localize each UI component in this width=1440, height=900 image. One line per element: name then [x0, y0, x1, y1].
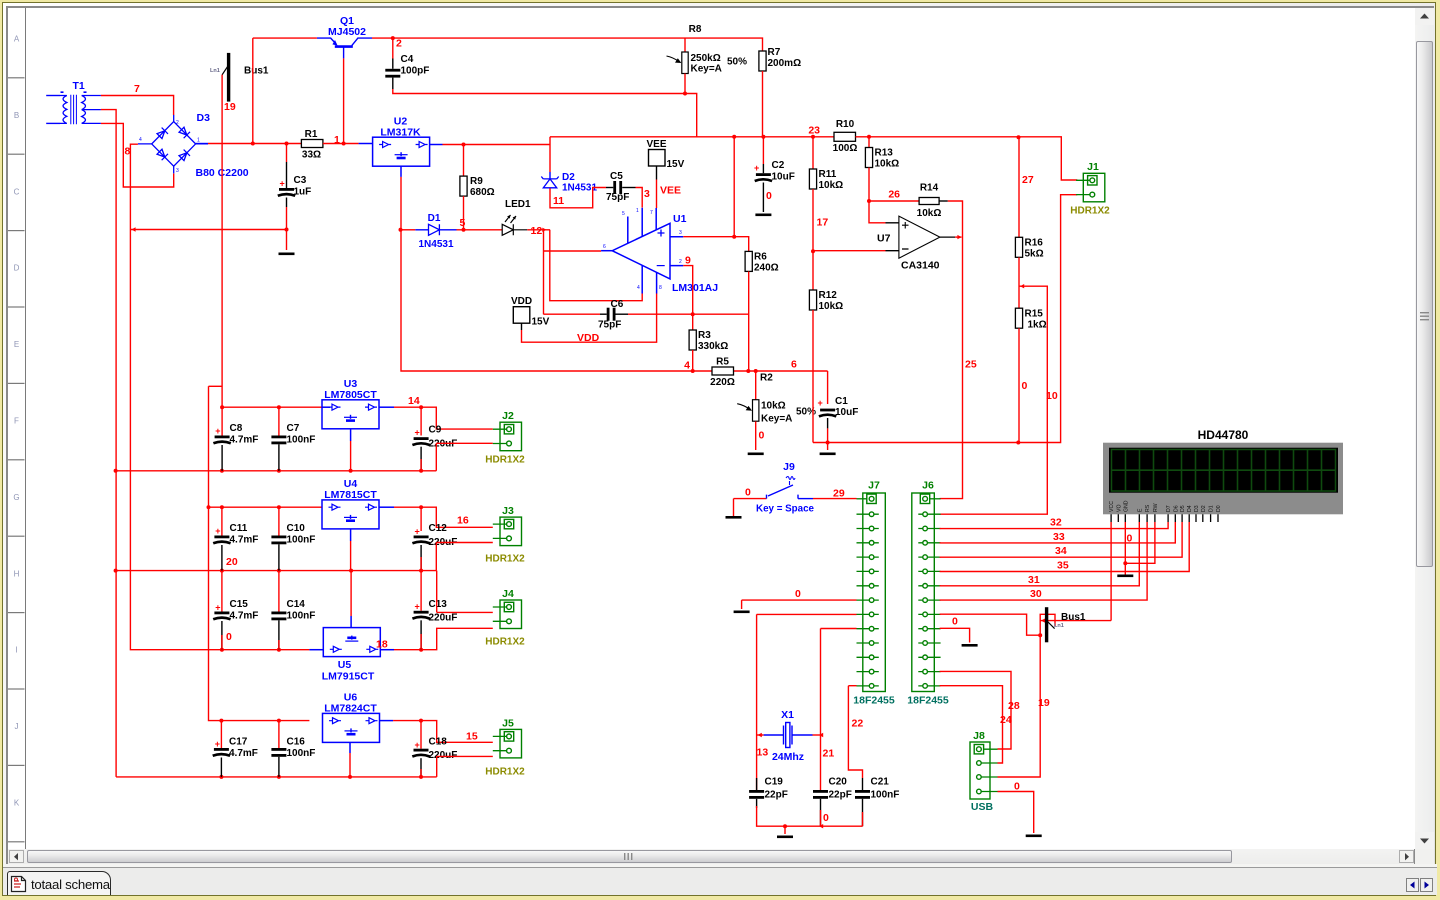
wire C14 bottom: [278, 620, 280, 649]
wire LCD VCC down: [1110, 522, 1112, 621]
stub: [322, 406, 330, 408]
svg-text:D4: D4: [1187, 505, 1193, 512]
svg-text:100pF: 100pF: [401, 66, 430, 77]
wire gnd stub: [733, 499, 735, 516]
connector J7 18F2455: [857, 493, 886, 692]
svg-text:19: 19: [224, 101, 236, 113]
svg-text:2: 2: [679, 259, 682, 265]
svg-text:+: +: [215, 739, 220, 749]
wire C12 bottom: [420, 545, 422, 571]
capacitor C12: [414, 536, 429, 539]
capacitor C3: [279, 188, 294, 191]
svg-text:100nF: 100nF: [287, 611, 316, 622]
svg-text:R16: R16: [1025, 238, 1044, 249]
junction arrow X1 left: [758, 733, 762, 737]
op-amp U1 LM301AJ: [601, 208, 683, 294]
junction: [462, 143, 466, 147]
junction: [419, 719, 423, 723]
U2 output stub: [430, 144, 443, 146]
svg-text:VDD: VDD: [511, 296, 532, 307]
wire net 28 J6 pin13 to J8 pin1: [940, 671, 1011, 749]
wire net 7 T1 top to bridge: [101, 96, 174, 116]
wire net 30 J6 to LCD: [940, 522, 1148, 600]
capacitor C16: [271, 748, 286, 751]
svg-text:27: 27: [1022, 174, 1034, 186]
svg-text:Bus1: Bus1: [1061, 612, 1086, 623]
wire net 17 to U7 -: [813, 250, 886, 252]
wire net 19 bus tap down to C8: [221, 75, 223, 436]
svg-text:LM317K: LM317K: [380, 127, 421, 139]
U2 adj stub: [400, 166, 402, 177]
wire net 18 to J4 pin2: [394, 628, 493, 649]
capacitor C7: [271, 436, 286, 439]
svg-text:R10: R10: [836, 119, 855, 130]
svg-text:D3: D3: [197, 112, 211, 124]
regulator U6 LM7824CT: [323, 713, 380, 742]
wire J8 pin4 to ground: [998, 792, 1034, 834]
wire J4 pin1: [437, 611, 493, 613]
potentiometer R8: [682, 52, 688, 74]
connector J6 18F2455: [912, 493, 941, 692]
wire node to R1: [208, 143, 301, 145]
wire R14 feedback and net 25 to J6 pin1: [940, 201, 963, 499]
connector J3 HDR1X2: [493, 517, 522, 546]
wire to LCD VCC: [1040, 620, 1111, 622]
sheet zone ruler column A-K: [25, 8, 27, 849]
wire net 8 bridge minus to U5 input bus: [130, 144, 309, 650]
wire net 13 J7 pin9: [757, 613, 857, 615]
svg-text:8: 8: [659, 285, 662, 291]
wire bus to C2: [762, 137, 764, 164]
wire J6 pin9 to bus tap: [940, 614, 1041, 635]
junction: [285, 142, 289, 146]
U4 gnd stub: [350, 529, 352, 541]
tab nav buttons: [1406, 878, 1419, 892]
wire net 8 branch to C3 ground node: [130, 229, 286, 231]
svg-text:C17: C17: [229, 737, 248, 748]
junction: [732, 135, 736, 139]
wire C2 bottom: [762, 183, 764, 213]
wire C6 left: [544, 313, 601, 315]
wire top bus to R7: [393, 38, 763, 51]
junction: [285, 228, 289, 232]
svg-text:17: 17: [817, 217, 829, 229]
svg-text:C3: C3: [294, 175, 307, 186]
svg-text:Ln1: Ln1: [210, 68, 220, 74]
wire: [436, 571, 438, 613]
U5 in stub: [309, 649, 323, 651]
svg-text:10kΩ: 10kΩ: [819, 180, 844, 191]
wire C9 bottom: [420, 447, 422, 471]
svg-text:9: 9: [685, 255, 691, 267]
wire net 0 to J7 pin8: [742, 599, 857, 601]
wire R3 bottom to bus 4: [692, 350, 694, 371]
U4 out stub: [379, 506, 394, 508]
junction: [277, 719, 281, 723]
svg-text:1: 1: [197, 138, 200, 144]
junction: [826, 441, 830, 445]
svg-text:0: 0: [1127, 533, 1133, 545]
junction: [761, 135, 765, 139]
wire net 0 to switch: [734, 498, 767, 500]
wire to U1 pin1: [550, 230, 642, 301]
wire C4 bottom bus to main rail: [393, 89, 697, 137]
op-amp U7 CA3140: [886, 216, 956, 258]
wire LCD RW to GND: [1125, 522, 1155, 563]
lead: [600, 313, 607, 315]
wire C11 top: [221, 507, 223, 535]
wire vertical emitter to node 1 bus: [252, 38, 254, 143]
capacitor C2: [756, 173, 771, 176]
svg-text:0: 0: [766, 190, 772, 202]
wire net 19 to J8 pin3: [998, 635, 1041, 777]
transistor Q1 MJ4502: [317, 38, 372, 58]
wire net 29 to J7 pin1: [813, 498, 857, 500]
svg-text:C13: C13: [429, 599, 448, 610]
wire Q1 collector: [372, 37, 393, 39]
junction: [399, 228, 403, 232]
svg-text:32: 32: [1050, 517, 1062, 529]
svg-text:J5: J5: [502, 718, 514, 730]
junction: [220, 405, 224, 409]
svg-text:LED1: LED1: [505, 199, 531, 210]
wire U6 gnd: [349, 753, 351, 777]
svg-text:10kΩ: 10kΩ: [819, 301, 844, 312]
capacitor C19: [749, 790, 764, 793]
wire U3 gnd: [350, 441, 352, 471]
svg-text:+: +: [215, 426, 220, 436]
wire C12 top: [420, 507, 422, 531]
svg-text:0: 0: [226, 631, 232, 643]
lead: [762, 164, 764, 173]
svg-text:28: 28: [1008, 700, 1020, 712]
stub: [741, 600, 743, 609]
svg-text:18F2455: 18F2455: [853, 695, 895, 707]
svg-text:18F2455: 18F2455: [907, 695, 949, 707]
lead: [521, 323, 523, 330]
wire C7 bottom: [278, 444, 280, 471]
junction: [114, 469, 118, 473]
svg-text:4.7mF: 4.7mF: [230, 611, 259, 622]
svg-text:R8: R8: [689, 24, 702, 35]
svg-text:15V: 15V: [667, 159, 685, 170]
wire net 21 J7 pin10: [821, 628, 857, 630]
resistor R14: [919, 198, 939, 205]
svg-text:HDR1X2: HDR1X2: [485, 767, 525, 778]
svg-text:0: 0: [1014, 781, 1020, 793]
svg-text:30: 30: [1030, 588, 1042, 600]
svg-text:D2: D2: [1201, 505, 1207, 512]
wire node 26 to R14: [869, 200, 919, 202]
wire C16 bottom: [278, 757, 280, 777]
svg-text:C6: C6: [611, 299, 624, 310]
svg-text:VEE: VEE: [646, 139, 666, 150]
svg-text:14: 14: [408, 395, 420, 407]
svg-text:330kΩ: 330kΩ: [698, 341, 728, 352]
capacitor C20: [813, 790, 828, 793]
svg-text:U1: U1: [673, 213, 687, 225]
diode D1 1N4531: [415, 224, 456, 235]
svg-text:C19: C19: [765, 777, 784, 788]
ground at LCD: [1117, 575, 1133, 578]
stub: [784, 826, 786, 834]
wire: [436, 756, 438, 777]
junction arrow: [1020, 284, 1024, 288]
junction: [754, 369, 758, 373]
junction: [419, 775, 423, 779]
ground at J8 pin4: [1026, 835, 1042, 838]
wire U2 adj down to R5 bus: [401, 177, 828, 371]
svg-text:D7: D7: [1166, 505, 1172, 512]
wire R12 bottom to ground bus: [812, 310, 814, 443]
svg-text:2: 2: [396, 38, 402, 50]
wire net 32 J6 to LCD: [940, 522, 1169, 529]
junction: [277, 469, 281, 473]
junction: [419, 648, 423, 652]
wire to D1: [401, 229, 416, 231]
svg-text:5kΩ: 5kΩ: [1025, 249, 1044, 260]
junction: [219, 719, 223, 723]
svg-text:GND: GND: [1123, 500, 1129, 512]
svg-text:4: 4: [684, 360, 690, 372]
wire bottom bus: [757, 806, 863, 826]
capacitor C8: [215, 436, 230, 439]
svg-text:C12: C12: [429, 523, 448, 534]
junction: [419, 405, 423, 409]
svg-text:5: 5: [622, 211, 625, 217]
svg-text:LM301AJ: LM301AJ: [672, 282, 718, 294]
svg-text:R9: R9: [470, 176, 483, 187]
svg-text:6: 6: [791, 359, 797, 371]
svg-text:100nF: 100nF: [871, 790, 900, 801]
wire C17 bottom: [220, 758, 222, 777]
wire net 22 J7 pin14: [848, 685, 856, 687]
power symbol VEE 15V: [649, 150, 666, 167]
svg-text:HD44780: HD44780: [1198, 428, 1249, 442]
svg-text:HDR1X2: HDR1X2: [485, 554, 525, 565]
svg-text:C20: C20: [829, 777, 848, 788]
svg-text:2: 2: [176, 120, 179, 126]
resistor R10: [834, 132, 856, 141]
wire: [435, 443, 437, 471]
wire U5 gnd up to bus: [350, 571, 352, 616]
junction: [277, 648, 281, 652]
ground under C1: [820, 453, 836, 456]
junction node 5: [462, 228, 466, 232]
wire Q1 base down to node 1: [343, 58, 345, 143]
svg-text:D5: D5: [1180, 505, 1186, 512]
resistor R16: [1015, 237, 1022, 257]
svg-text:J6: J6: [922, 480, 934, 492]
wire: [221, 635, 223, 650]
svg-text:3: 3: [679, 230, 682, 236]
junction: [419, 569, 423, 573]
wire net 35 J6 to LCD: [940, 522, 1190, 572]
svg-text:C21: C21: [871, 777, 890, 788]
svg-text:C14: C14: [287, 599, 306, 610]
wire J3 pin2: [436, 542, 493, 544]
svg-text:4.7mF: 4.7mF: [230, 435, 259, 446]
wire to bus entry: [1040, 614, 1055, 635]
svg-text:25: 25: [965, 359, 977, 371]
svg-text:J2: J2: [502, 410, 514, 422]
wire: [435, 543, 437, 571]
svg-text:22pF: 22pF: [829, 790, 852, 801]
wire net 15 to J5 pin1: [393, 721, 493, 743]
strip below scrollbar: [3, 864, 1437, 867]
diode D2 1N4531 (zener): [541, 177, 558, 189]
bus Bus1 (LCD segment): [1045, 607, 1048, 642]
svg-text:4.7mF: 4.7mF: [230, 535, 259, 546]
lead: [286, 162, 288, 188]
svg-text:8: 8: [125, 146, 131, 158]
svg-text:J8: J8: [973, 730, 985, 742]
svg-text:10kΩ: 10kΩ: [875, 159, 900, 170]
wire: [420, 557, 422, 571]
svg-text:200mΩ: 200mΩ: [768, 58, 802, 69]
junction arrow C20: [819, 824, 823, 828]
wire net 12: [527, 229, 550, 231]
svg-text:VEE: VEE: [660, 185, 681, 197]
wire net 3 to U1 pin: [636, 188, 643, 208]
junction: [348, 775, 352, 779]
svg-text:C8: C8: [230, 423, 243, 434]
resistor R11: [809, 169, 816, 189]
junction: [342, 142, 346, 146]
svg-text:1: 1: [636, 208, 639, 214]
svg-text:+: +: [818, 398, 823, 408]
active sheet tab "totaal schema": [7, 871, 111, 895]
capacitor C1: [820, 409, 835, 412]
lead: [616, 313, 629, 315]
wire net 11 staircase: [550, 188, 606, 208]
connector J1 HDR1X2: [1076, 173, 1105, 202]
wire to R9: [463, 145, 465, 177]
wire C4 top lead: [392, 38, 394, 58]
wire T1 bottom to bridge pin3: [101, 123, 174, 187]
resistor R12: [809, 290, 816, 310]
regulator U4 LM7815CT: [322, 500, 379, 529]
svg-text:R12: R12: [819, 290, 838, 301]
capacitor C9: [414, 437, 429, 440]
svg-text:31: 31: [1028, 574, 1040, 586]
junction: [732, 235, 736, 239]
capacitor C5: [613, 181, 616, 194]
regulator U2 LM317K: [373, 137, 430, 166]
wire C15 top: [221, 571, 223, 612]
svg-text:USB: USB: [971, 801, 994, 813]
lead: [606, 187, 613, 189]
svg-text:+: +: [280, 179, 285, 189]
svg-text:75pF: 75pF: [606, 192, 629, 203]
wire net 27: [1018, 137, 1020, 237]
connector J4 HDR1X2: [493, 600, 522, 629]
svg-text:24: 24: [1000, 714, 1012, 726]
wire bus to R13: [868, 137, 870, 148]
svg-text:11: 11: [553, 195, 564, 207]
wire net 33 J6 to LCD: [940, 522, 1176, 543]
wire U7 output: [955, 236, 961, 238]
resistor R13: [865, 148, 872, 168]
junction arrow X1 right: [819, 733, 823, 737]
svg-text:MJ4502: MJ4502: [328, 26, 366, 38]
wire divider tap to J6 pin2: [940, 286, 1048, 514]
wire ground bus to J1 pin2: [813, 195, 1077, 443]
svg-text:R5: R5: [716, 357, 729, 368]
svg-text:0: 0: [795, 588, 801, 600]
svg-text:HDR1X2: HDR1X2: [485, 455, 525, 466]
wire R6 bottom to bus: [748, 271, 750, 371]
svg-text:240Ω: 240Ω: [754, 263, 779, 274]
svg-text:15V: 15V: [532, 317, 550, 328]
resistor R15: [1015, 308, 1022, 328]
svg-text:1uF: 1uF: [294, 187, 312, 198]
junction: [811, 135, 815, 139]
junction arrow: [131, 227, 135, 231]
wire R8 bottom: [684, 74, 686, 94]
regulator U3 LM7805CT: [322, 400, 379, 429]
wire: [757, 734, 764, 736]
junction: [277, 405, 281, 409]
wire: [813, 734, 821, 736]
wire net12 down to C6 line: [543, 230, 545, 315]
wire Q1 emitter to raw rail: [253, 37, 317, 39]
wire C1 bottom: [827, 428, 829, 450]
resistor R5: [712, 367, 734, 375]
wire C17 top: [220, 721, 222, 748]
capacitor C14: [271, 612, 286, 615]
wire branch jog: [209, 385, 223, 387]
wire: [862, 812, 864, 826]
connector J2 HDR1X2: [493, 422, 522, 451]
junction: [277, 505, 281, 509]
svg-text:250kΩ: 250kΩ: [691, 53, 721, 64]
wire node 5 to LED1: [457, 229, 503, 231]
ground under C3: [279, 253, 295, 256]
wire J5 pin2: [437, 755, 493, 757]
svg-text:VO: VO: [1116, 505, 1122, 513]
vertical scrollbar: [1415, 8, 1434, 849]
svg-text:+: +: [415, 740, 420, 750]
svg-text:18: 18: [376, 639, 388, 651]
capacitor C15: [214, 612, 229, 615]
wire C13 bottom: [420, 620, 422, 649]
svg-text:33: 33: [1053, 531, 1065, 543]
svg-text:0: 0: [745, 487, 751, 499]
wire C6 right to R6 bottom line: [628, 313, 749, 315]
capacitor C10: [271, 536, 286, 539]
wire C15 bottom: [221, 621, 223, 650]
wire LCD GND: [1124, 522, 1126, 575]
svg-text:D1: D1: [1209, 505, 1215, 512]
capacitor C18: [414, 749, 429, 752]
U3 out stub: [379, 406, 394, 408]
junction: [220, 469, 224, 473]
wire R9 bottom to node 5: [463, 196, 465, 230]
lead: [756, 799, 758, 808]
capacitor C13: [414, 611, 429, 614]
junction: [691, 312, 695, 316]
svg-text:C1: C1: [835, 396, 848, 407]
svg-text:Key=A: Key=A: [691, 64, 722, 75]
junction: [114, 569, 118, 573]
wire +15V bus to J1 pin1: [856, 137, 1078, 180]
lead: [622, 187, 635, 189]
svg-text:C16: C16: [287, 737, 306, 748]
wire net 13 down to X1/C19: [756, 614, 758, 790]
svg-text:24Mhz: 24Mhz: [772, 751, 804, 763]
wire: [420, 769, 422, 777]
